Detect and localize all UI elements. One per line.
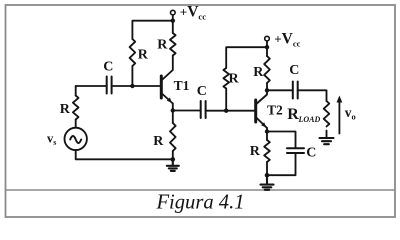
wire: Vcc1 terminal stem: [172, 15, 174, 21]
ground G1: [167, 159, 179, 171]
svg-text:Figura 4.1: Figura 4.1: [155, 192, 244, 214]
wire: R2 bottom to T1 collector: [161, 56, 173, 81]
svg-text:R: R: [157, 38, 168, 53]
node Vcc1 junction: [171, 19, 175, 23]
node T2 base junction: [224, 109, 228, 113]
wire: emitter node down to R5: [266, 132, 268, 141]
resistor R5 (T2 emitter): [264, 140, 270, 162]
wire: base node up to R3: [225, 89, 227, 111]
wire: R1 bottom to base node: [131, 66, 133, 86]
source vs circle: [65, 128, 87, 150]
svg-text:R: R: [138, 48, 149, 63]
node ground G1 junction: [171, 157, 176, 162]
wire: T1 emitter down to node: [172, 104, 174, 111]
arrowhead vo: [337, 96, 343, 103]
arrow vo: [338, 101, 340, 134]
svg-text:R: R: [153, 134, 164, 149]
wire: collector node to C3: [267, 89, 293, 91]
svg-text:T2: T2: [267, 103, 283, 118]
transistor T2 base bar: [254, 100, 257, 122]
node base T1 junction: [130, 84, 134, 88]
wire: Vcc1 down to R2: [172, 21, 174, 33]
capacitor C4 (emitter bypass): [287, 148, 304, 153]
wire: R3 top to Vcc2 rail: [226, 47, 267, 68]
transistor T1 emitter: [161, 93, 173, 104]
transistor T2 emitter: [256, 117, 267, 128]
terminal Vcc2: [265, 36, 270, 41]
wire: T2 emitter to node: [266, 128, 268, 132]
transistor T2 emitter arrowhead: [261, 122, 266, 127]
resistor R2 (T1 collector): [170, 33, 176, 56]
wire: vs bottom to ground run: [76, 150, 173, 159]
resistor R6 (source series): [73, 96, 79, 120]
resistor R8 (RLOAD): [324, 101, 330, 127]
node G2 junction: [265, 173, 270, 178]
wire: bypass branch bottom: [267, 153, 296, 175]
svg-text:C: C: [197, 84, 207, 99]
capacitor C1 (input coupling): [107, 77, 112, 94]
ground G2: [261, 175, 274, 190]
transistor T1 base bar: [160, 76, 163, 98]
svg-text:R: R: [253, 65, 264, 80]
wire: R5 bottom to ground node: [266, 162, 268, 175]
wire: Vcc1 rail left to R1 top: [132, 21, 172, 39]
wire: bypass branch top: [267, 132, 296, 149]
wire: R4 bottom to collector node: [266, 83, 268, 90]
svg-text:C: C: [306, 146, 316, 161]
wire: emitter node down to R7: [172, 111, 174, 124]
wire: base node to T2: [226, 110, 256, 112]
wire: R6 to vs source: [75, 120, 77, 128]
capacitor C3 (output coupling): [293, 82, 298, 99]
node T1 emitter junction: [171, 108, 175, 112]
svg-text:R: R: [250, 144, 261, 159]
wire: vs branch top: [75, 86, 77, 96]
wire: R7 bottom to ground node: [172, 151, 174, 159]
svg-text:LOAD: LOAD: [298, 115, 321, 124]
wire: C2 to T2 base node: [206, 110, 227, 112]
transistor T1 emitter arrowhead: [167, 98, 172, 103]
svg-text:R: R: [287, 106, 299, 123]
svg-text:T1: T1: [174, 78, 190, 93]
svg-text:C: C: [103, 60, 113, 75]
node Vcc2 junction: [265, 45, 269, 49]
resistor R4 (T2 collector): [264, 56, 270, 83]
wire: C1 to T1 base: [112, 85, 162, 87]
capacitor C2 (interstage coupling): [201, 101, 206, 118]
wire: RLOAD bottom to ground: [326, 131, 328, 138]
wire: input lead to C1: [76, 85, 107, 87]
transistor T2 collector: [256, 90, 267, 104]
wire: Vcc2 down to R4: [266, 47, 268, 56]
svg-text:R: R: [229, 72, 240, 87]
ground G3: [320, 138, 334, 144]
terminal Vcc1: [171, 10, 176, 15]
wire: Vcc2 terminal stem: [266, 41, 268, 47]
resistor R3 (T2 bias): [223, 68, 229, 89]
resistor R7 (T1 emitter): [170, 123, 176, 151]
svg-text:C: C: [289, 63, 299, 78]
node T2 emitter junction: [265, 129, 269, 133]
wire: C3 to RLOAD: [298, 90, 327, 101]
source vs sine: [70, 136, 81, 143]
wire: emitter node right to C2: [173, 110, 201, 112]
node T2 collector junction: [265, 88, 269, 92]
resistor R1 (T1 upper bias): [130, 39, 136, 66]
svg-text:R: R: [60, 102, 71, 117]
